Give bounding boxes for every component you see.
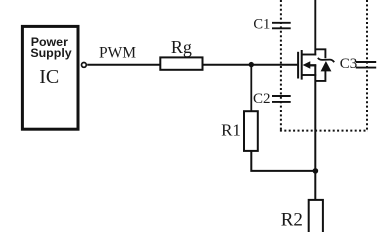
- svg-text:Supply: Supply: [30, 46, 71, 60]
- svg-text:PWM: PWM: [99, 45, 136, 62]
- svg-text:IC: IC: [39, 66, 59, 88]
- svg-text:C2: C2: [253, 91, 271, 107]
- svg-text:Rg: Rg: [171, 37, 192, 57]
- svg-text:C3: C3: [340, 56, 358, 72]
- svg-text:C1: C1: [253, 17, 270, 33]
- svg-text:R1: R1: [221, 120, 241, 139]
- svg-text:R2: R2: [281, 210, 303, 231]
